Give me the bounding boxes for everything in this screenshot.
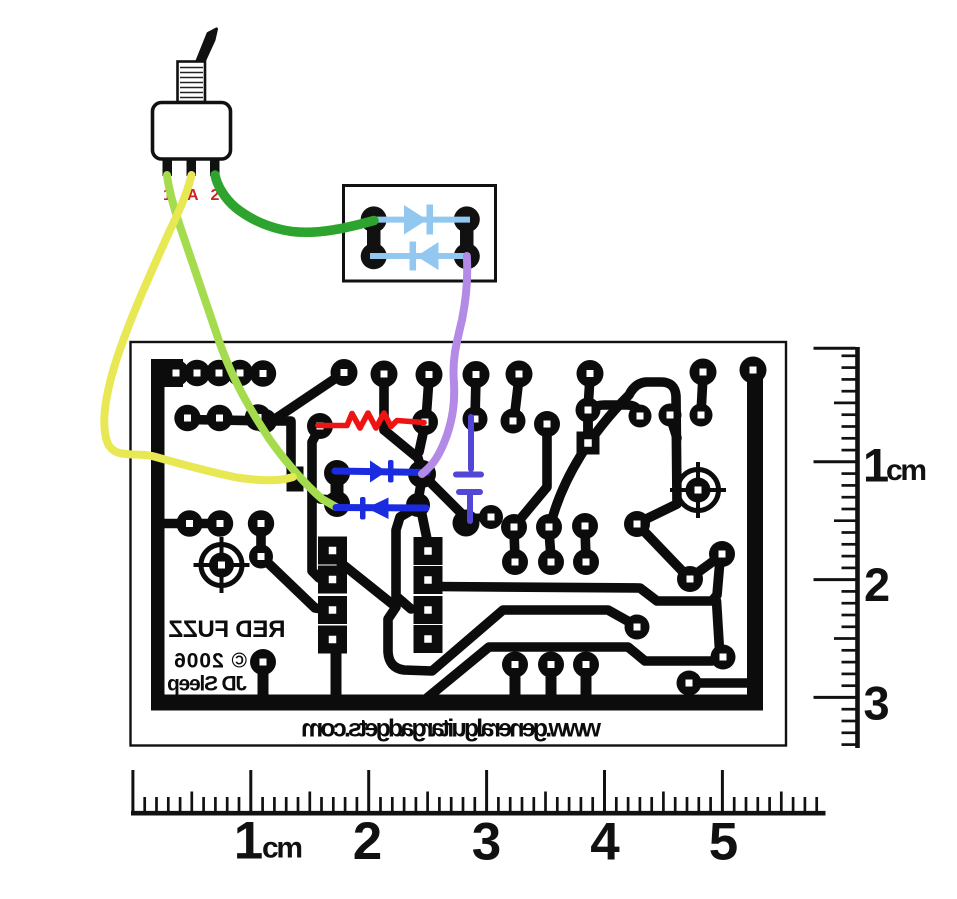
wire band A (434, 560, 720, 601)
row1 p753 (740, 357, 767, 384)
capacitor C1 (slate blue) (456, 417, 481, 521)
pad 689c (677, 671, 702, 696)
wire B dumbbell (331, 473, 344, 504)
row1 p344 (331, 359, 358, 386)
wire yellow (lug A loop to PCB pad) (104, 175, 293, 480)
diode D3 (blue, row1, points right) (335, 460, 427, 483)
ground border left bar (151, 359, 165, 711)
wire yellow-green (lug 1 to PCB diode row, under component colors) (167, 175, 336, 507)
left pad pair (367, 220, 381, 257)
switch lug A (187, 159, 197, 176)
pad 547 (534, 411, 560, 437)
pad261b (249, 545, 273, 569)
wire band b1 (341, 563, 633, 671)
pad P2 690 (677, 566, 703, 592)
arch pad 701 (690, 404, 713, 427)
wire v-band to sq3R (396, 507, 417, 609)
wire P1-P2 diag (640, 527, 687, 576)
row2 p258 (245, 404, 271, 430)
pad cap top (463, 407, 488, 432)
pad 723c (711, 645, 736, 670)
ground border bottom bar (151, 695, 763, 711)
crosshair mount hole left (194, 537, 250, 593)
pad P3 722 (709, 541, 735, 567)
wire row2 link (187, 376, 339, 421)
stub pad551 to border (546, 670, 557, 698)
diode D1 triangle and cathode bar (404, 205, 427, 235)
right pad pair (460, 220, 474, 257)
wire stub 670 (671, 419, 677, 438)
row3 p220 (207, 510, 233, 536)
row3 p261 (248, 510, 274, 536)
stub pad586 to border (581, 670, 592, 698)
switch lug 1 (163, 159, 173, 176)
wire V1 down from A1 (312, 431, 331, 579)
svg-text:2: 2 (353, 812, 382, 871)
row1 p476 (463, 361, 490, 388)
wire pad261 down (256, 527, 266, 556)
wire sq1R stub up (421, 510, 428, 544)
svg-text:www.generalguitargadgets.com: www.generalguitargadgets.com (301, 715, 602, 743)
pad 515b (502, 549, 528, 575)
wire 547 down-diag to pad514 (517, 430, 547, 523)
pad C2 (406, 493, 430, 517)
stub pad515 to border (510, 670, 521, 698)
row1 p384 (371, 361, 398, 388)
row1 p5 (250, 360, 276, 386)
row1 p519 (506, 361, 533, 388)
square pads right column (414, 537, 443, 565)
row1 p1 (163, 360, 189, 386)
wire band C (from ground border) (427, 647, 718, 698)
toggle switch S1 (153, 29, 231, 204)
stub sq4L to border (331, 650, 342, 698)
wire Sy stub up (272, 421, 291, 468)
svg-text:1: 1 (234, 812, 263, 871)
wire stub 703 (701, 376, 703, 413)
pad 585 (572, 513, 598, 539)
svg-text:© 2006: © 2006 (174, 650, 247, 673)
wire stub 590 (588, 377, 590, 409)
row1 p3 (206, 360, 232, 386)
square pads left column (287, 432, 600, 654)
wire arch inner (588, 405, 639, 442)
switch lug 2 (210, 159, 220, 176)
wire diag 384-Cbig (384, 430, 421, 468)
wire bandA corner down to pad723 (717, 601, 720, 650)
svg-text:5: 5 (709, 813, 738, 872)
square pad Sy (yellow wire target) (287, 467, 304, 492)
row2 p187 (174, 405, 200, 431)
row1 p2 (184, 360, 210, 386)
wire purple (diode box to PCB pad) (422, 256, 467, 474)
pad 549 (536, 514, 562, 540)
pad 513 (501, 409, 526, 434)
border to pad-row junction (151, 359, 183, 387)
diode box D1/D2 (clipping diodes) (344, 186, 496, 282)
diode D2 wire (bottom) (370, 253, 470, 259)
row2 p219 (206, 405, 232, 431)
wire sq588 link (583, 412, 593, 441)
component pads (163, 357, 767, 696)
arch pad 640 (629, 405, 652, 428)
wire Cbig to C2 (418, 478, 422, 501)
row1 p703 (690, 359, 717, 386)
wire green (lug 2 to diode box) (215, 175, 374, 232)
pad P1 637 (624, 511, 650, 537)
square pad sq588 (577, 432, 600, 455)
wire stub A2-diag (419, 429, 424, 452)
wire V1 branch to B2 (312, 491, 332, 500)
wire row3 link to border (157, 519, 220, 529)
pad A2 (resistor right) (412, 409, 438, 435)
pad A1 (resistor left) (307, 413, 333, 439)
horizontal ruler (bottom) (131, 770, 826, 813)
wire arch outer (551, 382, 677, 523)
svg-text:4: 4 (590, 813, 620, 872)
row3 p189 (176, 510, 202, 536)
row1 p590 (577, 360, 604, 387)
svg-text:cm: cm (886, 454, 927, 487)
pad 586b (573, 549, 599, 575)
pad Cbig (purple wire end) (408, 460, 436, 488)
svg-text:3: 3 (864, 677, 890, 730)
diode D4 (blue, row2, points left) (336, 497, 426, 520)
switch bat lever (197, 29, 217, 64)
stub pad263 to border (258, 668, 269, 698)
pad 588 (576, 398, 601, 423)
pad 515c (502, 652, 528, 678)
svg-text:RED FUZZ: RED FUZZ (169, 616, 286, 643)
wire dumbbell 549 (549, 531, 551, 558)
switch threaded bushing (178, 62, 206, 103)
arch pad 670 (659, 404, 682, 427)
wire pad689 to right bar (689, 678, 748, 688)
pad 491 (479, 505, 503, 529)
pad 551b (538, 549, 564, 575)
pad B2 (diode row2 left) (324, 491, 350, 517)
box outline (344, 186, 496, 282)
wire stub 476-captop (475, 378, 476, 418)
wire stub 384 (379, 378, 389, 430)
resistor R1 (red) (318, 413, 424, 428)
pad holes (173, 367, 757, 687)
pad 586c (573, 652, 599, 678)
svg-text:cm: cm (262, 832, 303, 865)
wire Cbig to cap bottom pad (426, 478, 462, 514)
switch body (153, 103, 231, 160)
wire stub 519 (514, 378, 519, 420)
wire P3-P2 diag (693, 557, 719, 576)
pad 263c (250, 649, 276, 675)
diode D2 cathode bar and triangle (pointing left) (410, 242, 417, 271)
pcb outer box (131, 342, 787, 746)
pad cap bottom (453, 510, 480, 537)
svg-text:3: 3 (472, 813, 501, 872)
vertical ruler (right) (814, 347, 858, 748)
crosshair mount hole right (670, 462, 726, 518)
row1 p4 (227, 360, 253, 386)
wire dumbbell 585 (585, 530, 586, 558)
row1 p429 (416, 361, 443, 388)
svg-text:2: 2 (864, 558, 890, 611)
ground border right bar (747, 369, 763, 705)
PCB board (131, 342, 787, 746)
wire capbottom to pad491 (466, 517, 491, 518)
pad 551c (538, 652, 564, 678)
pad 637c (625, 615, 650, 640)
svg-text:JD Sleep: JD Sleep (167, 673, 247, 696)
row2 blob 265 (253, 409, 277, 433)
diode D1 wire (top) (370, 217, 470, 223)
wire dumbbell 514 (514, 531, 515, 558)
pad B1 (diode row1 left) (324, 460, 350, 486)
pad 514 (501, 514, 527, 540)
wire diag 261-sq3 (265, 560, 329, 610)
wire stub 429-A2 (426, 378, 429, 420)
